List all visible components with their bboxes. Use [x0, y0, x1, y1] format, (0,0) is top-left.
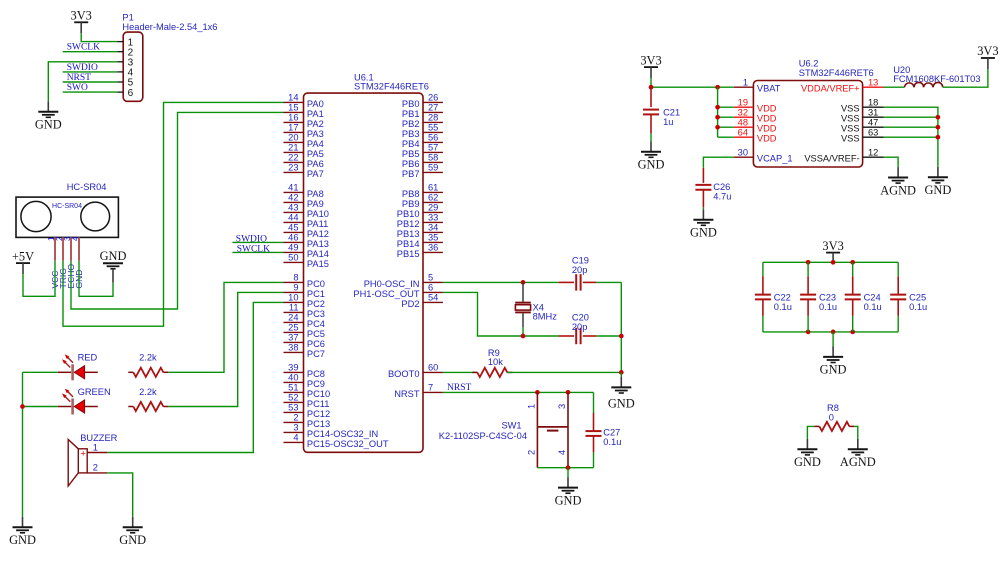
buzzer BUZZER	[68, 433, 117, 486]
resistor R8 0	[814, 425, 819, 427]
svg-text:BUZZER: BUZZER	[80, 433, 117, 443]
svg-text:1: 1	[93, 442, 98, 452]
svg-text:VSS: VSS	[841, 104, 860, 114]
U6.1 pin 39 PC8	[284, 371, 304, 373]
U6.1 pin 11 PC3	[284, 311, 304, 313]
svg-text:SWCLK: SWCLK	[67, 43, 100, 53]
wire VSSA to AGND	[884, 157, 899, 167]
svg-text:59: 59	[428, 163, 438, 173]
svg-text:PC9: PC9	[307, 379, 325, 389]
svg-text:AGND: AGND	[840, 455, 876, 469]
wire PC1 to GREEN led resistor	[168, 292, 283, 406]
svg-text:C26: C26	[713, 182, 730, 192]
junction VSS bus	[936, 125, 941, 130]
svg-text:PB15: PB15	[397, 249, 420, 259]
decoupling bank top wire	[763, 261, 898, 263]
wire C19 to right rail	[596, 281, 621, 283]
P1 pin 6	[117, 91, 123, 93]
svg-text:63: 63	[868, 127, 878, 137]
U6.2 pin 1 VBAT	[734, 86, 754, 88]
wire buzzer pin2 to GND	[107, 473, 132, 517]
wire VDD bus row 4	[718, 136, 734, 138]
U6.2 pin 13 VDDA/VREF+	[863, 86, 884, 88]
wire BOOT0 to R9	[443, 371, 477, 373]
capacitor C21 1u	[643, 87, 680, 141]
junction SW1 pin3	[566, 390, 571, 395]
svg-text:0: 0	[829, 413, 834, 423]
ground (crystal circuit)	[608, 377, 635, 410]
wire ECHO to PA1	[71, 112, 284, 309]
U6.1 pin 57 PB5	[423, 151, 443, 153]
svg-text:2.2k: 2.2k	[139, 353, 157, 363]
VSS bus wire	[884, 107, 938, 167]
svg-text:PB14: PB14	[397, 239, 420, 249]
wire C20 to right rail	[596, 335, 621, 337]
junction VDD bus	[715, 125, 720, 130]
svg-text:PC11: PC11	[307, 399, 330, 409]
U6.1 pin 52 PC11	[284, 401, 304, 403]
svg-text:RED: RED	[78, 353, 98, 363]
svg-text:R8: R8	[827, 403, 839, 413]
svg-text:PB10: PB10	[397, 209, 420, 219]
svg-text:PC2: PC2	[307, 299, 325, 309]
capacitor C19 20p	[559, 256, 597, 291]
svg-text:56: 56	[428, 133, 438, 143]
buzzer pin 1	[87, 452, 107, 454]
U6.1 pin 20 PA4	[284, 141, 304, 143]
svg-text:21: 21	[288, 143, 298, 153]
wire PH0-OSC_IN to C19	[443, 281, 559, 283]
wire SW1 bottom to GND	[567, 468, 569, 478]
U6.2 pin 47 VSS	[863, 126, 884, 128]
buzzer pin 2	[87, 472, 107, 474]
wire PC0 to RED led resistor	[168, 282, 283, 372]
svg-text:PB1: PB1	[402, 109, 420, 119]
U6.2 pin 30 VCAP_1	[734, 156, 754, 158]
svg-text:PC12: PC12	[307, 409, 330, 419]
HC-SR04 pin 4 GND	[78, 237, 80, 260]
svg-text:3: 3	[293, 423, 298, 433]
svg-text:PB4: PB4	[402, 139, 420, 149]
net label SWDIO wire (PA13)	[232, 241, 283, 243]
svg-text:PA15: PA15	[307, 259, 329, 269]
svg-text:31: 31	[868, 107, 878, 117]
svg-text:19: 19	[738, 97, 748, 107]
junction bank bottom C23	[806, 330, 811, 335]
svg-text:57: 57	[428, 143, 438, 153]
decoupling bank bottom wire	[763, 331, 898, 333]
power flag 3V3 (right)	[977, 44, 998, 69]
junction C20/right rail	[619, 334, 624, 339]
right rail wire (C19/C20/R9)	[620, 282, 622, 372]
wire NRST to SW1/C27	[443, 391, 594, 393]
svg-text:4: 4	[71, 236, 80, 241]
svg-text:3: 3	[557, 404, 567, 409]
ground (bank)	[820, 347, 847, 377]
wire VSS row 2	[884, 116, 938, 118]
svg-text:PC15-OSC32_OUT: PC15-OSC32_OUT	[307, 439, 389, 449]
junction crystal bottom	[521, 334, 526, 339]
svg-text:35: 35	[428, 233, 438, 243]
U6.1 pin 54 PD2	[423, 301, 443, 303]
svg-text:0.1u: 0.1u	[819, 302, 837, 312]
junction bank top C24	[850, 260, 855, 265]
svg-text:VSS: VSS	[841, 134, 860, 144]
svg-text:PA7: PA7	[307, 169, 324, 179]
P1 pin 4	[117, 71, 123, 73]
ground (P1)	[35, 101, 62, 131]
svg-text:60: 60	[428, 363, 438, 373]
U6.1 pin 45 PA12	[284, 231, 304, 233]
U6.1 pin 35 PB14	[423, 241, 443, 243]
svg-text:14: 14	[288, 93, 298, 103]
svg-text:PC1: PC1	[307, 289, 325, 299]
power flag 3V3 (C21)	[640, 53, 661, 78]
U6.1 pin 25 PC5	[284, 331, 304, 333]
capacitor C25 0.1u	[890, 262, 927, 332]
U6.1 pin 42 PA9	[284, 201, 304, 203]
wire VDDA to U20	[884, 86, 905, 88]
svg-text:PB9: PB9	[402, 199, 420, 209]
svg-text:PA10: PA10	[307, 209, 329, 219]
svg-text:20: 20	[288, 133, 298, 143]
svg-text:15: 15	[288, 103, 298, 113]
svg-text:PC0: PC0	[307, 279, 325, 289]
junction C21 top	[649, 85, 654, 90]
net label SWCLK wire (PA14)	[232, 251, 283, 253]
U6.1 pin 2 PC13	[284, 421, 304, 423]
svg-text:17: 17	[288, 123, 298, 133]
svg-text:0.1u: 0.1u	[864, 302, 882, 312]
U6.1 pin 21 PA5	[284, 151, 304, 153]
svg-text:VDDA/VREF+: VDDA/VREF+	[801, 84, 860, 94]
resistor 2.2k (GREEN)	[128, 406, 133, 408]
svg-text:SWCLK: SWCLK	[237, 245, 270, 255]
svg-text:10: 10	[288, 293, 298, 303]
svg-text:PA0: PA0	[307, 99, 324, 109]
capacitor C23 0.1u	[800, 262, 837, 332]
U6.1 pin 59 PB7	[423, 171, 443, 173]
junction R9/right rail	[619, 370, 624, 375]
svg-text:11: 11	[289, 303, 299, 313]
svg-text:33: 33	[428, 213, 438, 223]
junction bank bottom GND	[831, 330, 836, 335]
U6.2 pin 19 VDD	[734, 106, 754, 108]
svg-text:54: 54	[428, 293, 438, 303]
svg-text:30: 30	[738, 147, 748, 157]
wire GREEN led left to GND rail	[23, 406, 58, 408]
svg-text:12: 12	[868, 147, 878, 157]
svg-text:VSSA/VREF-: VSSA/VREF-	[804, 154, 859, 164]
svg-text:18: 18	[868, 97, 878, 107]
U6.1 pin 4 PC15-OSC32_OUT	[284, 441, 304, 443]
junction bank top 3V3	[831, 260, 836, 265]
svg-text:PC8: PC8	[307, 369, 325, 379]
svg-text:STM32F446RET6: STM32F446RET6	[799, 68, 874, 78]
svg-text:8MHz: 8MHz	[533, 312, 558, 322]
IC U6.2 STM32F446RET6 (power)	[753, 81, 862, 168]
VDD bus vertical wire	[717, 87, 719, 137]
U6.1 pin 56 PB4	[423, 141, 443, 143]
switch SW1 K2-1102SP-C4SC-04	[439, 392, 568, 467]
svg-text:GND: GND	[690, 226, 717, 240]
junction VDD bus	[715, 105, 720, 110]
U6.2 pin 64 VDD	[734, 136, 754, 138]
svg-text:20p: 20p	[572, 265, 588, 275]
LED RED	[58, 354, 98, 380]
resistor 2.2k (RED)	[128, 371, 133, 373]
wire bank GND stem	[832, 332, 834, 347]
svg-text:25: 25	[288, 323, 298, 333]
svg-text:47: 47	[868, 117, 878, 127]
svg-text:VCAP_1: VCAP_1	[757, 154, 793, 164]
svg-text:PA3: PA3	[307, 129, 324, 139]
capacitor C22 0.1u	[755, 262, 792, 332]
svg-text:53: 53	[288, 403, 298, 413]
svg-text:39: 39	[288, 363, 298, 373]
svg-text:PB2: PB2	[402, 119, 420, 129]
svg-text:PC10: PC10	[307, 389, 330, 399]
ground (LED rail)	[9, 517, 36, 547]
svg-text:9: 9	[293, 283, 298, 293]
U6.1 pin 34 PB13	[423, 231, 443, 233]
svg-text:PC7: PC7	[307, 349, 325, 359]
junction VSS bus	[936, 135, 941, 140]
svg-text:PA2: PA2	[307, 119, 324, 129]
svg-text:PA4: PA4	[307, 139, 324, 149]
wire VDD bus row 1	[718, 106, 734, 108]
wire SWO (P1 pin 6)	[63, 91, 117, 93]
svg-text:32: 32	[738, 107, 748, 117]
U6.1 pin 38 PC7	[284, 351, 304, 353]
U6.1 pin 23 PA7	[284, 171, 304, 173]
junction VSS bus	[936, 115, 941, 120]
svg-text:PA12: PA12	[307, 229, 329, 239]
svg-text:55: 55	[428, 123, 438, 133]
U6.1 pin 53 PC12	[284, 411, 304, 413]
HC-SR04 pin 2 TRIG	[62, 237, 64, 260]
svg-text:13: 13	[868, 77, 878, 87]
svg-text:24: 24	[288, 313, 298, 323]
svg-text:PA9: PA9	[307, 199, 324, 209]
svg-text:VSS: VSS	[841, 114, 860, 124]
svg-text:PC13: PC13	[307, 419, 330, 429]
U6.1 pin 46 PA13	[284, 241, 304, 243]
svg-text:2: 2	[526, 450, 536, 455]
ground (C21)	[638, 141, 665, 171]
wire SWCLK (P1 pin 2)	[63, 51, 117, 53]
U6.2 pin 32 VDD	[734, 116, 754, 118]
svg-text:1: 1	[743, 77, 748, 87]
svg-text:44: 44	[288, 213, 298, 223]
svg-text:PC4: PC4	[307, 319, 325, 329]
svg-text:5: 5	[428, 273, 433, 283]
svg-text:GREEN: GREEN	[78, 387, 111, 397]
svg-text:0.1u: 0.1u	[774, 302, 792, 312]
svg-text:2: 2	[293, 413, 298, 423]
svg-text:10k: 10k	[488, 357, 503, 367]
svg-text:AGND: AGND	[880, 183, 916, 197]
capacitor C26 4.7u	[695, 168, 731, 210]
wire VSS row 3	[884, 126, 938, 128]
svg-text:PC3: PC3	[307, 309, 325, 319]
svg-text:HC-SR04: HC-SR04	[67, 182, 107, 192]
U6.1 pin 22 PA6	[284, 161, 304, 163]
junction VDD bus top	[715, 85, 720, 90]
P1 pin 3	[117, 61, 123, 63]
junction crystal top	[521, 280, 526, 285]
U6.1 pin 26 PB0	[423, 101, 443, 103]
wire HC-SR04 GND pin to GND flag	[79, 261, 113, 297]
U6.1 pin 15 PA1	[284, 111, 304, 113]
svg-text:BOOT0: BOOT0	[388, 369, 420, 379]
capacitor C20 20p	[559, 313, 597, 345]
capacitor C27 0.1u	[586, 392, 622, 467]
U6.1 pin 58 PB6	[423, 161, 443, 163]
capacitor C24 0.1u	[845, 262, 882, 332]
U6.1 pin 27 PB1	[423, 111, 443, 113]
wire R9 to right rail	[507, 371, 621, 373]
svg-text:50: 50	[288, 253, 298, 263]
svg-text:VSS: VSS	[841, 124, 860, 134]
svg-text:NRST: NRST	[447, 383, 471, 393]
wire PH1-OSC_OUT to crystal bottom / C20	[443, 292, 559, 336]
svg-text:SW1: SW1	[501, 420, 521, 430]
crystal X4 8MHz	[515, 282, 557, 336]
svg-text:62: 62	[428, 193, 438, 203]
U6.2 pin 48 VDD	[734, 126, 754, 128]
HC-SR04 pin 1 VCC	[54, 237, 56, 260]
svg-text:GND: GND	[638, 158, 665, 172]
svg-text:7: 7	[428, 383, 433, 393]
svg-text:51: 51	[288, 383, 298, 393]
U6.1 pin 50 PA15	[284, 261, 304, 263]
wire NRST (P1 pin 5)	[63, 81, 117, 83]
wire VSS row 4	[884, 136, 938, 138]
svg-text:+5V: +5V	[12, 249, 34, 263]
wire junction to GND stem	[620, 372, 622, 377]
svg-text:C27: C27	[603, 428, 620, 438]
U6.1 pin 6 PH1-OSC_OUT	[423, 291, 443, 293]
U6.2 pin 31 VSS	[863, 116, 884, 118]
svg-text:1: 1	[526, 404, 536, 409]
svg-text:PC5: PC5	[307, 329, 325, 339]
U6.1 pin 51 PC10	[284, 391, 304, 393]
svg-text:37: 37	[288, 333, 298, 343]
wire VDD bus row 2	[718, 116, 734, 118]
ground (SW1)	[555, 477, 582, 507]
U6.1 pin 28 PB2	[423, 121, 443, 123]
junction SW1 pin1	[535, 390, 540, 395]
ground (R8 left)	[794, 439, 821, 469]
U6.1 pin 43 PA10	[284, 211, 304, 213]
svg-text:23: 23	[288, 163, 298, 173]
svg-text:58: 58	[428, 153, 438, 163]
svg-text:Header-Male-2.54_1x6: Header-Male-2.54_1x6	[122, 22, 217, 32]
svg-text:PA5: PA5	[307, 149, 324, 159]
power flag 3V3 (P1)	[71, 9, 92, 34]
svg-text:6: 6	[128, 88, 134, 99]
wire VCAP_1 to C26	[703, 157, 733, 168]
svg-text:PB0: PB0	[402, 99, 420, 109]
LED GREEN	[58, 389, 98, 415]
svg-text:34: 34	[428, 223, 438, 233]
svg-text:2: 2	[93, 462, 98, 472]
svg-text:VBAT: VBAT	[757, 84, 781, 94]
junction VDD bus	[715, 115, 720, 120]
svg-text:PB3: PB3	[402, 129, 420, 139]
svg-text:49: 49	[288, 243, 298, 253]
svg-text:2.2k: 2.2k	[139, 387, 157, 397]
svg-text:PB12: PB12	[397, 219, 420, 229]
svg-text:STM32F446RET6: STM32F446RET6	[354, 82, 429, 92]
svg-text:45: 45	[288, 223, 298, 233]
U6.1 pin 10 PC2	[284, 301, 304, 303]
inductor U20 FCM1608KF-601T03	[893, 65, 980, 87]
power flag 3V3 (bank)	[822, 239, 843, 264]
power flag +5V	[12, 249, 34, 274]
U6.1 pin 41 PA8	[284, 191, 304, 193]
svg-text:20p: 20p	[572, 322, 588, 332]
ground AGND (R8 right)	[840, 439, 876, 469]
svg-text:PD2: PD2	[401, 299, 419, 309]
junction SW1 bottom	[566, 465, 571, 470]
IC U6.1 STM32F446RET6	[304, 93, 424, 452]
wire R8 right to AGND	[854, 426, 857, 439]
svg-text:4.7u: 4.7u	[713, 192, 731, 202]
svg-text:NRST: NRST	[67, 73, 91, 83]
junction bank top C23	[806, 260, 811, 265]
U6.1 pin 17 PA3	[284, 131, 304, 133]
svg-text:GND: GND	[608, 396, 635, 410]
svg-text:16: 16	[288, 113, 298, 123]
U6.1 pin 16 PA2	[284, 121, 304, 123]
wire VDD bus row 3	[718, 126, 734, 128]
U6.1 pin 14 PA0	[284, 101, 304, 103]
P1 pin 5	[117, 81, 123, 83]
U6.2 pin 18 VSS	[863, 106, 884, 108]
svg-text:3V3: 3V3	[977, 44, 998, 58]
svg-text:40: 40	[288, 373, 298, 383]
P1 pin 1	[117, 41, 123, 43]
sensor HC-SR04	[16, 182, 118, 237]
svg-text:28: 28	[428, 113, 438, 123]
svg-text:NRST: NRST	[394, 389, 420, 399]
junction GREEN/GND rail	[20, 404, 25, 409]
svg-text:52: 52	[288, 393, 298, 403]
svg-text:PC14-OSC32_IN: PC14-OSC32_IN	[307, 429, 378, 439]
HC-SR04 pin 3 ECHO	[70, 237, 72, 260]
svg-text:SWDIO: SWDIO	[67, 63, 98, 73]
connector P1 Header-Male-2.54_1x6	[123, 32, 143, 101]
svg-text:GND: GND	[100, 249, 127, 263]
U6.1 pin 7 NRST	[423, 391, 443, 393]
svg-text:46: 46	[288, 233, 298, 243]
svg-text:PA8: PA8	[307, 189, 324, 199]
svg-text:6: 6	[428, 283, 433, 293]
U6.1 pin 3 PC14-OSC32_IN	[284, 431, 304, 433]
svg-text:GND: GND	[119, 533, 146, 547]
svg-text:GND: GND	[9, 533, 36, 547]
wire SWDIO (P1 pin 4)	[63, 71, 117, 73]
U6.1 pin 29 PB10	[423, 211, 443, 213]
U6.1 pin 5 PH0-OSC_IN	[423, 281, 443, 283]
svg-text:PA14: PA14	[307, 249, 329, 259]
svg-text:PA11: PA11	[307, 219, 328, 229]
svg-text:3V3: 3V3	[71, 9, 92, 23]
svg-text:GND: GND	[924, 183, 951, 197]
svg-text:22: 22	[288, 153, 298, 163]
